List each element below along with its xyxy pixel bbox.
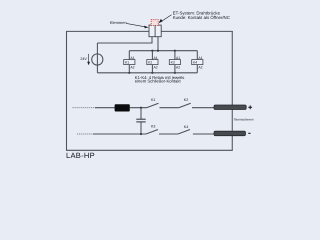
label: ET-System note (173, 10, 230, 20)
junction: K3 tap top rail (174, 50, 176, 52)
wire: row2 dotted stub from left (78, 133, 94, 135)
junction: K1 tap bottom rail (128, 72, 130, 74)
svg-text:K2: K2 (148, 61, 152, 65)
jumper: red dashed Drahtbruecke on terminal block (151, 20, 158, 26)
label: relay caption (135, 75, 185, 84)
svg-text:LAB-HP: LAB-HP (66, 151, 95, 160)
svg-text:A1: A1 (198, 56, 202, 60)
wire: row1 dotted stub from left (73, 107, 96, 109)
svg-text:K3: K3 (151, 125, 155, 129)
junction: K2 tap bottom rail (151, 72, 153, 74)
wire: relay coil bottom rail (97, 72, 197, 74)
relay coil K3 (169, 51, 180, 73)
junction: K2 tap top rail (151, 50, 153, 52)
svg-text:K1: K1 (151, 98, 155, 102)
source: 24V supply circle (92, 54, 103, 65)
wire: vertical through 24V source (96, 43, 98, 73)
svg-text:A1: A1 (176, 56, 180, 60)
busbar minus (214, 131, 246, 136)
wire: row2 between contacts (159, 133, 178, 135)
svg-text:A2: A2 (130, 66, 134, 70)
wire: row1 fuse to contact K1 (130, 107, 147, 109)
wire: top supply line left of terminal block (67, 30, 150, 32)
label: plus (248, 105, 252, 109)
svg-text:Stromschienen: Stromschienen (234, 118, 254, 122)
relay coil K2 (147, 51, 158, 73)
contact K3 (NO) (146, 125, 158, 134)
wire: relay coil top rail (129, 50, 197, 52)
wire: terminal right cell down to relay top rail (157, 37, 159, 51)
svg-text:A2: A2 (198, 66, 202, 70)
svg-text:A1: A1 (130, 56, 134, 60)
svg-text:einem Schließer-Kontakt: einem Schließer-Kontakt (135, 79, 182, 84)
svg-text:K2: K2 (184, 98, 188, 102)
wire: row1 between contacts (160, 107, 179, 109)
capacitor (136, 108, 145, 134)
wire: row1 solid into fuse (95, 107, 115, 109)
wire: top supply line right of terminal block (161, 30, 233, 32)
wire: left frame conductor (66, 31, 68, 150)
fuse: black body on row1 (115, 104, 130, 111)
arrow: current direction at source (87, 54, 90, 65)
wire: bottom frame conductor (66, 149, 233, 151)
contact K4 (NO) (178, 125, 190, 134)
svg-text:K3: K3 (171, 61, 175, 65)
junction: capacitor top tap (140, 107, 142, 109)
svg-text:K4: K4 (193, 61, 197, 65)
svg-text:A1: A1 (154, 56, 158, 60)
relay coil K4 (192, 51, 203, 73)
terminal block X1 (Klemmen) (149, 25, 161, 37)
svg-text:K1: K1 (125, 61, 129, 65)
svg-text:A2: A2 (176, 66, 180, 70)
leader arrow: Klemmen to block (127, 24, 149, 29)
wire: row1 to busbar plus (192, 107, 215, 109)
contact K2 (NO) (179, 98, 191, 108)
svg-text:Klemmen: Klemmen (110, 20, 127, 25)
busbar plus (214, 105, 246, 110)
junction: capacitor bottom tap (140, 133, 142, 135)
svg-text:A2: A2 (154, 66, 158, 70)
contact K1 (NO) (147, 98, 159, 108)
label: minus (248, 132, 250, 134)
wire: right frame conductor (231, 31, 233, 150)
wire: row2 to busbar minus (193, 133, 215, 135)
junction: K3 tap bottom rail (174, 72, 176, 74)
junction: feed on top rail (157, 50, 159, 52)
svg-text:Kunde: Kontakt als Öffner/NC: Kunde: Kontakt als Öffner/NC (173, 15, 230, 20)
wire: row2 solid to capacitor tap (93, 133, 146, 135)
leader arrow: note to jumper (159, 15, 172, 23)
svg-text:24V: 24V (80, 57, 87, 61)
relay coil K1 (124, 51, 135, 73)
svg-text:K4: K4 (184, 125, 188, 129)
wire: terminal left cell down and across to 24V source (97, 37, 152, 43)
